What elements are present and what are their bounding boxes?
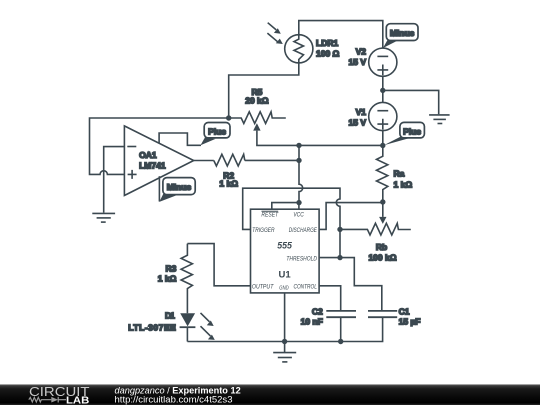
node: Ra bottom / discharge junction (380, 199, 385, 204)
label R2 1kΩ (219, 171, 238, 189)
svg-text:100 kΩ: 100 kΩ (368, 252, 396, 262)
svg-text:15 V: 15 V (349, 57, 367, 67)
LED D1 (180, 313, 215, 340)
node: GND pin junction (282, 339, 287, 344)
wire: RESET and VCC pins to junction (272, 203, 299, 210)
svg-text:555: 555 (277, 240, 292, 250)
svg-text:10 nF: 10 nF (301, 317, 323, 327)
node: R5 wiper junction (296, 143, 301, 148)
pin THRESHOLD (286, 256, 317, 263)
pin RESET overline (262, 210, 279, 212)
svg-text:1 kΩ: 1 kΩ (158, 274, 177, 284)
pin GND (279, 285, 288, 291)
svg-text:Plus: Plus (208, 126, 226, 136)
wire: C1 bottom to ground row (341, 317, 383, 341)
svg-text:OA1: OA1 (139, 150, 157, 160)
svg-text:U1: U1 (279, 270, 292, 281)
svg-text:R3: R3 (166, 264, 177, 274)
potentiometer Rb (340, 223, 411, 235)
svg-text:D1: D1 (165, 310, 175, 320)
wire: D1 cathode to ground row (186, 327, 188, 342)
voltage source V2 (369, 48, 397, 76)
svg-text:CONTROL: CONTROL (294, 283, 318, 290)
wire: CONTROL pin to C2 top (320, 286, 341, 310)
svg-text:Minus: Minus (167, 182, 192, 192)
svg-text:LTL-307EE: LTL-307EE (128, 322, 176, 332)
node: supply midpoint junction (380, 88, 385, 93)
label Rb 100kΩ (368, 242, 396, 262)
logo CIRCUIT (29, 385, 90, 399)
wire: R2 right to Plus column (245, 159, 299, 161)
ground (supply) (429, 115, 450, 124)
svg-text:http://circuitlab.com/c4t52s3: http://circuitlab.com/c4t52s3 (115, 395, 233, 405)
op-amp OA1 (124, 126, 193, 196)
logo LAB (66, 395, 89, 405)
wire: op-amp V+ pin to Plus flag (159, 133, 201, 145)
pin RESET (261, 212, 279, 219)
label Ra 1kΩ (394, 168, 413, 189)
label LDR1 100Ω (316, 38, 340, 59)
footer bar (0, 384, 540, 405)
resistor Ra (377, 146, 388, 203)
svg-text:THRESHOLD: THRESHOLD (286, 256, 317, 263)
ground (bottom) (273, 342, 296, 362)
svg-text:Rb: Rb (376, 242, 387, 252)
svg-text:LDR1: LDR1 (316, 38, 338, 48)
wire: 555 GND pin to ground row (284, 293, 286, 342)
svg-text:1 kΩ: 1 kΩ (219, 179, 238, 189)
capacitor C2 (326, 311, 356, 317)
wire: feedback to op-amp noninverting input (hop over ground wire) (90, 118, 229, 174)
wire: C2 bottom to ground row (340, 317, 342, 341)
svg-text:DISCHARGE: DISCHARGE (289, 227, 318, 234)
svg-text:15 µF: 15 µF (399, 317, 421, 327)
svg-text:V1: V1 (356, 107, 367, 117)
net flag Minus (V2) (383, 24, 418, 48)
svg-text:15 V: 15 V (349, 117, 367, 127)
pin VCC (293, 212, 304, 219)
voltage source V1 (369, 102, 397, 130)
potentiometer Rb wiper arrow (379, 202, 386, 224)
svg-text:Ra: Ra (394, 168, 405, 178)
logo resistor-diode squiggle (29, 397, 66, 403)
label V2 15V (349, 46, 367, 67)
footer title (115, 385, 241, 395)
wire: V2 plus to V1 minus (382, 76, 384, 102)
label C1 15µF (399, 307, 421, 327)
pin DISCHARGE (289, 227, 318, 234)
label 555 (277, 240, 292, 250)
svg-text:GND: GND (279, 285, 288, 291)
footer url (115, 395, 233, 405)
svg-text:V2: V2 (356, 46, 367, 56)
svg-text:LM741: LM741 (139, 160, 166, 170)
wire: op-amp inverting input to ground (104, 147, 125, 213)
wire: DISCHARGE pin to Ra bottom (320, 203, 383, 230)
label R5 20kΩ (245, 87, 269, 106)
node: Plus net junction at V1 (380, 143, 385, 148)
wire: LDR1 top to V2 minus terminal (299, 21, 383, 49)
resistor R3 (181, 244, 192, 314)
svg-text:LAB: LAB (66, 395, 89, 405)
label V1 15V (349, 107, 367, 127)
resistor R2 (214, 154, 245, 166)
net flag Plus (op-amp) (201, 123, 231, 146)
resistor R5 (rheostat) (229, 112, 299, 146)
pin CONTROL (294, 283, 318, 290)
ground (op-amp) (92, 213, 115, 222)
wire: OUTPUT pin to R3 top (187, 244, 250, 286)
svg-text:TRIGGER: TRIGGER (252, 227, 275, 234)
label R3 1kΩ (158, 264, 177, 284)
svg-text:Plus: Plus (403, 126, 421, 136)
svg-text:RESET: RESET (261, 212, 279, 219)
wire: Plus row to V1 node (299, 144, 383, 146)
svg-text:100 Ω: 100 Ω (316, 49, 340, 59)
label U1 (279, 270, 292, 281)
photoresistor LDR1 (267, 23, 313, 63)
svg-text:C1: C1 (399, 307, 410, 317)
node: VCC/RESET junction (296, 200, 301, 205)
wire: LDR1 bottom to R5 left node (229, 63, 299, 118)
wire: op-amp output to R2 (194, 160, 214, 162)
wire: V1 plus to Plus node (382, 131, 384, 146)
net flag Minus (op-amp) (159, 178, 195, 202)
wire: Plus column (hop over trigger wire) (299, 145, 303, 202)
node: R2 right junction (296, 158, 301, 163)
node: R5 left junction (226, 115, 231, 120)
wire: TRIGGER pin loop to threshold column (hops) (243, 188, 340, 257)
svg-text:OUTPUT: OUTPUT (252, 283, 274, 290)
svg-text:Minus: Minus (390, 28, 415, 38)
wire: supply midpoint to ground (383, 90, 439, 114)
IC U1 555 (251, 209, 320, 293)
svg-text:VCC: VCC (293, 212, 304, 219)
wire: ground row (187, 341, 340, 343)
node: C2 ground junction (338, 339, 343, 344)
label D1 LTL-307EE (128, 310, 176, 332)
pin TRIGGER (252, 227, 275, 234)
net flag Plus (V1) (384, 122, 425, 145)
wire: op-amp V- pin stub (158, 176, 160, 201)
label C2 10nF (301, 307, 323, 327)
capacitor C1 (368, 311, 397, 317)
svg-text:20 kΩ: 20 kΩ (245, 95, 269, 105)
pin OUTPUT (252, 283, 274, 290)
svg-text:C2: C2 (312, 307, 323, 317)
node: THRESHOLD junction (337, 255, 342, 260)
label OA1 LM741 (139, 150, 166, 171)
svg-text:1 kΩ: 1 kΩ (394, 180, 413, 190)
wire: THRESHOLD pin to C1 top (320, 258, 382, 311)
node: Rb left junction (337, 227, 342, 232)
